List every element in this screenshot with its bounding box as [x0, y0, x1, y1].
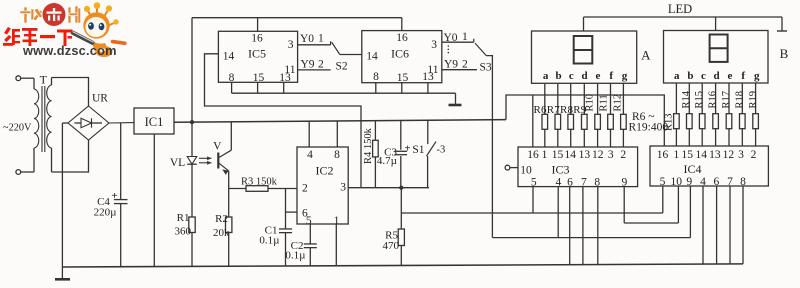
svg-text:e: e — [727, 70, 732, 82]
svg-text:3: 3 — [288, 39, 294, 51]
svg-text:10: 10 — [670, 176, 682, 188]
svg-text:15: 15 — [552, 149, 564, 161]
svg-text:0.1µ: 0.1µ — [285, 250, 305, 262]
svg-text:2: 2 — [302, 183, 308, 195]
svg-text:3: 3 — [738, 149, 744, 161]
svg-text:2: 2 — [318, 59, 324, 71]
svg-text:R17: R17 — [721, 91, 732, 109]
svg-text:15: 15 — [397, 72, 409, 84]
svg-text:4: 4 — [307, 149, 313, 161]
svg-text:1: 1 — [318, 33, 324, 45]
svg-text:8: 8 — [334, 149, 340, 161]
svg-text:4.7µ: 4.7µ — [377, 155, 397, 167]
svg-text:2: 2 — [751, 149, 757, 161]
svg-text:15: 15 — [253, 72, 265, 84]
svg-text:IC5: IC5 — [248, 46, 266, 60]
svg-text:5: 5 — [306, 215, 312, 227]
svg-text:360: 360 — [175, 226, 192, 238]
svg-text:16: 16 — [527, 149, 539, 161]
svg-text:a: a — [674, 70, 680, 82]
svg-text:9: 9 — [686, 176, 692, 188]
svg-text:14: 14 — [565, 149, 577, 161]
svg-text:220µ: 220µ — [94, 207, 117, 219]
svg-text:R14: R14 — [681, 90, 692, 108]
svg-text:3: 3 — [608, 149, 614, 161]
svg-text:15: 15 — [682, 149, 694, 161]
svg-text:5: 5 — [531, 177, 537, 189]
svg-text:Y9: Y9 — [444, 58, 458, 70]
svg-text:14: 14 — [223, 51, 235, 63]
svg-text:b: b — [556, 70, 562, 82]
svg-text:16: 16 — [251, 33, 263, 45]
svg-text:IC2: IC2 — [316, 164, 334, 178]
svg-text:R10: R10 — [585, 94, 596, 112]
svg-text:d: d — [714, 70, 720, 82]
svg-text:IC6: IC6 — [391, 47, 409, 61]
svg-text:3: 3 — [340, 182, 346, 194]
svg-text:T: T — [40, 73, 48, 87]
svg-text:Y0: Y0 — [444, 32, 458, 44]
svg-text:Y9: Y9 — [301, 59, 315, 71]
svg-text:14: 14 — [366, 51, 378, 63]
svg-text:1: 1 — [462, 31, 468, 43]
svg-text:www.dzsc.com: www.dzsc.com — [22, 43, 117, 58]
svg-text:R13: R13 — [664, 113, 675, 131]
svg-text:V: V — [213, 141, 222, 153]
svg-text:3: 3 — [431, 39, 437, 51]
svg-text:B: B — [780, 46, 789, 61]
svg-text:f: f — [741, 70, 745, 82]
svg-text:+: + — [111, 190, 117, 202]
svg-text:d: d — [582, 70, 588, 82]
svg-text:g: g — [622, 70, 628, 82]
svg-text:IC1: IC1 — [145, 115, 164, 129]
svg-text:c: c — [569, 70, 574, 82]
svg-text:8: 8 — [373, 71, 379, 83]
svg-text:-3: -3 — [437, 145, 446, 156]
svg-text:8: 8 — [229, 72, 235, 84]
svg-text:R2: R2 — [215, 213, 228, 225]
svg-text:c: c — [701, 70, 706, 82]
svg-text:IC3: IC3 — [552, 162, 570, 176]
svg-text:R19:400: R19:400 — [629, 122, 669, 134]
svg-text:R19: R19 — [748, 91, 759, 109]
svg-text:~220V: ~220V — [3, 122, 32, 133]
svg-text:f: f — [609, 70, 613, 82]
svg-text:LED: LED — [668, 2, 692, 16]
svg-text:R18: R18 — [734, 91, 745, 109]
svg-text:12: 12 — [723, 149, 735, 161]
svg-text:S1: S1 — [412, 144, 424, 156]
svg-text:IC4: IC4 — [684, 162, 702, 176]
svg-text:S3: S3 — [480, 62, 492, 74]
svg-text:R16: R16 — [708, 91, 719, 109]
svg-text:UR: UR — [92, 93, 108, 105]
svg-text:16: 16 — [396, 32, 408, 44]
svg-text:0.1µ: 0.1µ — [259, 235, 279, 247]
svg-text:+: + — [405, 144, 411, 155]
svg-text:R6R7R8R9: R6R7R8R9 — [534, 104, 587, 116]
svg-text:b: b — [687, 70, 693, 82]
svg-text:7: 7 — [581, 177, 587, 189]
svg-text:11: 11 — [284, 64, 295, 76]
svg-text:16: 16 — [657, 149, 669, 161]
svg-text:2: 2 — [620, 149, 626, 161]
svg-text:S2: S2 — [336, 61, 348, 73]
svg-text:12: 12 — [592, 149, 604, 161]
svg-text:g: g — [754, 70, 760, 82]
svg-text:13: 13 — [709, 149, 721, 161]
svg-text:R1: R1 — [177, 212, 190, 224]
svg-text:470: 470 — [383, 240, 400, 252]
svg-text:a: a — [543, 70, 549, 82]
svg-text:e: e — [595, 70, 600, 82]
svg-text:1: 1 — [542, 149, 548, 161]
svg-text:20k: 20k — [213, 227, 230, 239]
svg-text:13: 13 — [579, 149, 591, 161]
svg-text:R15: R15 — [694, 91, 705, 109]
svg-text:R12: R12 — [613, 94, 624, 112]
svg-text:1: 1 — [674, 149, 680, 161]
svg-text:R11: R11 — [599, 94, 610, 111]
svg-text:A: A — [641, 48, 651, 63]
svg-text:R4 150k: R4 150k — [363, 127, 374, 164]
svg-text:R3 150k: R3 150k — [241, 176, 278, 187]
svg-text:14: 14 — [695, 149, 707, 161]
svg-text:2: 2 — [462, 58, 468, 70]
svg-text:VL: VL — [170, 157, 185, 169]
svg-text:11: 11 — [427, 64, 438, 76]
svg-text:Y0: Y0 — [300, 33, 314, 45]
svg-text:10: 10 — [520, 164, 532, 176]
